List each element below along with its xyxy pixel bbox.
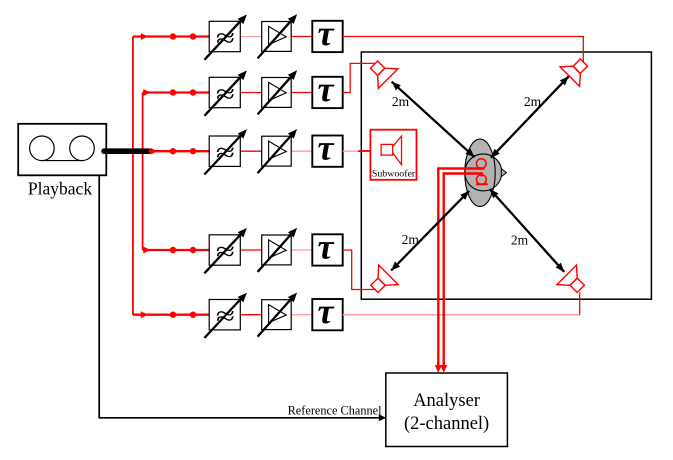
wire: row1 delay to top-right speaker (343, 37, 584, 63)
junction dots row 1 (170, 33, 176, 39)
svg-text:Subwoofer: Subwoofer (372, 169, 416, 180)
variable amplifier A4 (258, 228, 298, 272)
arrowhead row 4 (143, 247, 150, 254)
wire: feed line row 4 (143, 249, 210, 251)
wire: playback output (thick) (104, 148, 149, 154)
variable filter F1 (204, 15, 247, 60)
svg-text:τ: τ (318, 128, 335, 168)
wire: amp to delay row 1 (291, 36, 312, 38)
wire: right distribution bus (rows 2,4) (142, 93, 144, 251)
analyser box (386, 373, 508, 447)
delay unit T5 (tau) (312, 291, 342, 331)
wire: stub under right ear mic (476, 183, 488, 185)
svg-text:Analyser: Analyser (413, 391, 480, 411)
svg-text:(2-channel): (2-channel) (404, 414, 489, 434)
delay unit T3 (tau) (312, 128, 342, 168)
delay unit T1 (tau) (312, 13, 342, 53)
wire: reference channel (99, 175, 381, 417)
listener head (top view) (465, 139, 507, 206)
variable amplifier A5 (258, 293, 298, 337)
junction dots row 3 (170, 148, 176, 154)
ear microphone circles (476, 159, 486, 169)
listening room boundary (361, 52, 651, 299)
junction dots row 5 (170, 312, 176, 318)
junction dots row 4 (170, 247, 176, 253)
svg-text:τ: τ (318, 13, 335, 53)
variable amplifier A2 (258, 70, 298, 114)
loudspeaker LS3 (rear left) (365, 265, 399, 299)
delay unit T2 (tau) (312, 69, 342, 109)
loudspeaker LS2 (front right) (560, 53, 594, 87)
loudspeaker LS4 (rear right) (557, 265, 591, 299)
loudspeaker LS1 (front left) (364, 55, 398, 89)
arrowhead row 1 (141, 33, 148, 40)
variable amplifier A3 (258, 129, 298, 173)
wire: right ear mic to analyser (444, 174, 482, 369)
wire: feed line row 3 (149, 150, 210, 152)
subwoofer box (370, 130, 416, 180)
svg-text:2m: 2m (392, 94, 410, 109)
delay unit T4 (tau) (312, 226, 342, 266)
wire: row2 delay to top-left speaker (343, 63, 375, 92)
svg-text:τ: τ (318, 69, 335, 109)
distance arrow head to LS2 (491, 76, 569, 157)
wire: left ear mic to analyser (438, 169, 484, 369)
wire: filter to amp row 4 (240, 249, 261, 251)
wire: filter to amp row 2 (240, 92, 261, 94)
svg-text:2m: 2m (524, 94, 542, 109)
svg-text:2m: 2m (402, 232, 420, 247)
wire: row3 delay to subwoofer (343, 150, 358, 152)
svg-text:2m: 2m (511, 233, 529, 248)
wire: amp to delay row 4 (291, 249, 312, 251)
variable amplifier A1 (258, 14, 298, 58)
wire: feed line row 1 (133, 35, 209, 37)
junction dots row 2 (170, 89, 176, 95)
variable filter F4 (204, 228, 247, 273)
wire: feed line row 2 (143, 91, 210, 93)
wire: filter to amp row 1 (240, 36, 261, 38)
wire: filter to amp row 5 (240, 314, 261, 316)
wire: row4 delay to bottom-left speaker (343, 250, 375, 290)
arrowhead row 3 (150, 148, 157, 155)
variable filter F2 (204, 71, 247, 116)
distance arrow head to LS3 (391, 191, 469, 271)
playback tape machine (18, 124, 106, 176)
svg-text:τ: τ (318, 291, 335, 331)
wire: feed line row 5 (133, 314, 209, 316)
arrowhead row 5 (141, 311, 148, 318)
wire: amp to delay row 2 (291, 92, 312, 94)
svg-text:Reference Channel: Reference Channel (288, 403, 382, 417)
svg-text:Playback: Playback (28, 178, 92, 198)
arrowhead row 2 (143, 89, 150, 96)
wire: amp to delay row 5 (291, 314, 312, 316)
svg-text:τ: τ (318, 226, 335, 266)
variable filter F3 (204, 129, 247, 174)
variable filter F5 (204, 293, 247, 338)
distance arrow head to LS4 (490, 189, 564, 272)
wire: amp to delay row 3 (291, 150, 312, 152)
wire: left distribution bus (rows 1,5) (132, 37, 134, 315)
wire: row5 delay to bottom-right speaker (light) (343, 314, 580, 316)
distance arrow head to LS1 (392, 82, 475, 158)
wire: filter to amp row 3 (240, 150, 261, 152)
